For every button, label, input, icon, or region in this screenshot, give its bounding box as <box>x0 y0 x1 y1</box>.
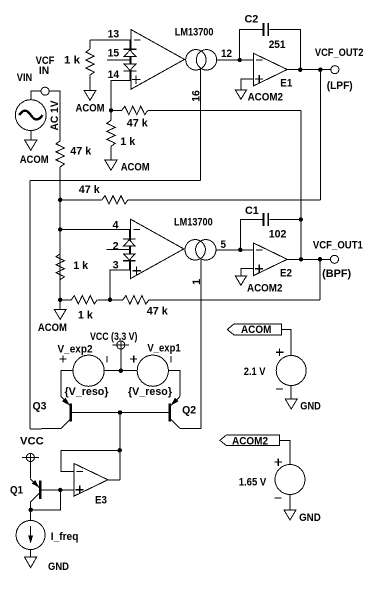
linearizing diode D4 <box>123 246 136 270</box>
wire E3 + input to Q1 base <box>40 489 74 491</box>
node VCF_OUT1 junction <box>318 257 322 261</box>
node Q1 base junction <box>58 488 62 492</box>
svg-text:E2: E2 <box>280 268 292 280</box>
svg-text:VCF_OUT2: VCF_OUT2 <box>315 47 364 59</box>
wire C1 feedback right leg <box>269 220 301 260</box>
node pin4 junction <box>58 227 62 231</box>
wire BPF feedback down to C1 node <box>300 110 302 219</box>
linearizing diode D3 <box>123 230 136 247</box>
ota U1b output mirror circles <box>185 240 216 260</box>
svg-text:VCC: VCC <box>20 435 44 447</box>
port VCF_OUT1 (BPF) <box>313 240 363 281</box>
voltage source V3 1.65 V <box>239 458 305 498</box>
ground GND under V3 <box>284 510 321 524</box>
svg-text:V_exp2: V_exp2 <box>58 344 93 356</box>
svg-text:15: 15 <box>108 48 120 60</box>
label LM13700 (U1b) <box>174 217 213 229</box>
wire E2 output <box>287 258 330 260</box>
op-amp U1a LM13700 triangle <box>131 30 185 90</box>
svg-text:4: 4 <box>113 220 120 232</box>
wire Q2 collector to pin1 <box>180 428 201 430</box>
wire pin 3 to node B <box>110 270 130 300</box>
svg-text:VIN: VIN <box>17 72 32 84</box>
wire bias rail left vertical <box>29 180 31 429</box>
wire ACOM flag to source <box>281 330 291 356</box>
resistor R7 1 k (node B) <box>60 296 110 322</box>
wire I_freq to GND <box>30 550 32 558</box>
svg-text:1: 1 <box>191 279 203 285</box>
pin label 14 <box>108 69 120 81</box>
node A junction (pin 14) <box>109 108 113 112</box>
svg-text:C1: C1 <box>245 205 259 217</box>
resistor R1 1 k (pin 13 to ACOM) <box>64 40 94 91</box>
transistor Q2 <box>170 397 196 429</box>
pin label 3 <box>113 260 119 272</box>
resistor R2 47 k (VIN series) <box>56 141 92 167</box>
wire source to GND 2 <box>289 495 291 511</box>
wire pin 14 to node A <box>111 80 131 110</box>
wire C2 feedback right leg <box>269 30 300 70</box>
node pin3 rail junction <box>58 298 62 302</box>
wire V_exp1 to Q2 emitter <box>168 371 180 397</box>
svg-text:1 k: 1 k <box>78 309 94 321</box>
svg-text:ACOM: ACOM <box>38 322 67 334</box>
resistor R3 47 k (BPF feedback) <box>111 106 301 129</box>
op-amp E3 <box>74 464 108 507</box>
linearizing diode D1 <box>124 40 137 57</box>
node VIN label <box>17 72 32 84</box>
wire bias rail horizontal <box>30 179 200 181</box>
svg-text:VCF_OUT1: VCF_OUT1 <box>313 240 363 252</box>
voltage source V_exp2 {V_reso} <box>58 344 110 399</box>
svg-text:LM13700: LM13700 <box>175 27 214 39</box>
svg-text:Q1: Q1 <box>10 484 23 496</box>
svg-text:2.1 V: 2.1 V <box>244 366 266 378</box>
wire port to AC source <box>31 91 41 100</box>
svg-text:LM13700: LM13700 <box>174 217 213 229</box>
svg-text:47 k: 47 k <box>70 146 92 158</box>
port VCF_OUT2 (LPF) <box>315 47 364 92</box>
svg-text:ACOM2: ACOM2 <box>248 92 283 104</box>
node VCF_OUT2 junction <box>318 68 322 72</box>
ground ACOM2 under E1 <box>235 90 283 103</box>
wire E1 + input to ACOM2 <box>241 79 254 90</box>
ground GND under V2 <box>285 399 321 412</box>
transistor Q1 <box>10 479 40 502</box>
resistor R6 1 k (pin4 node to ACOM) <box>56 254 89 280</box>
op-amp E2 <box>254 243 293 280</box>
wire E1 output <box>287 69 331 71</box>
node E1 output junction <box>298 68 302 72</box>
node C1/BPF junction <box>299 217 303 221</box>
node pin5/E2- junction <box>238 248 242 252</box>
pin label 1 <box>191 279 203 285</box>
net flag ACOM2 <box>220 435 279 447</box>
resistor R5 47 k (LPF feedback) <box>60 184 320 204</box>
port VCF IN <box>36 55 55 95</box>
svg-text:ACOM2: ACOM2 <box>232 435 268 447</box>
AC source V1 <box>15 100 46 131</box>
resistor R8 47 k (node B to VCF_OUT1) <box>110 296 320 318</box>
svg-text:GND: GND <box>300 400 321 412</box>
svg-text:13: 13 <box>108 28 120 40</box>
wire ACOM2 flag to source <box>279 440 290 464</box>
svg-text:1 k: 1 k <box>120 136 136 148</box>
svg-text:12: 12 <box>221 48 232 60</box>
pin 15 stub <box>107 48 130 60</box>
ground ACOM under AC source <box>20 140 49 166</box>
node B junction <box>108 298 112 302</box>
net flag ACOM <box>227 324 281 336</box>
op-amp E1 <box>254 53 293 89</box>
wire base rail to E3 output <box>119 413 121 480</box>
svg-text:ACOM: ACOM <box>121 162 150 174</box>
wire V_exp2 to Q3 emitter <box>61 371 73 397</box>
wire Q3 collector to bias rail <box>30 428 61 430</box>
pin 16 wire (bias, to Q3 collector rail) <box>199 69 201 180</box>
pin 2 stub <box>106 240 129 252</box>
svg-text:(BPF): (BPF) <box>322 268 351 280</box>
linearizing diode D2 <box>124 56 137 80</box>
svg-text:ACOM: ACOM <box>76 102 105 114</box>
wire pin 5 output <box>216 239 254 251</box>
ground ACOM2 under E2 <box>235 276 282 294</box>
ground ACOM under rail <box>38 300 67 334</box>
svg-text:47 k: 47 k <box>147 306 169 318</box>
label LM13700 (U1a) <box>175 27 214 39</box>
wire C1 feedback left leg <box>240 220 262 250</box>
power VCC symbol (Q1) <box>20 435 44 461</box>
svg-text:E3: E3 <box>95 495 107 507</box>
voltage source V_exp1 {V_reso} <box>128 343 181 399</box>
resistor R4 1 k (node A to ACOM) <box>107 110 136 160</box>
wire E3 feedback loop <box>61 450 120 471</box>
capacitor C2 <box>245 14 286 52</box>
ground ACOM under R1 <box>76 90 105 114</box>
svg-text:GND: GND <box>299 512 321 524</box>
node pin4 summing junction upper <box>58 198 62 202</box>
svg-text:102: 102 <box>269 229 287 241</box>
svg-text:1.65 V: 1.65 V <box>239 477 267 489</box>
svg-text:GND: GND <box>48 561 69 573</box>
svg-text:E1: E1 <box>280 77 292 89</box>
svg-text:Q3: Q3 <box>33 401 47 413</box>
wire rail down to pin4 node <box>59 167 61 230</box>
wire C2 feedback left leg <box>240 30 263 61</box>
svg-text:ACOM2: ACOM2 <box>247 282 282 294</box>
svg-text:ACOM: ACOM <box>241 324 271 336</box>
svg-text:5: 5 <box>221 239 227 251</box>
svg-text:C2: C2 <box>245 14 259 26</box>
svg-text:(LPF): (LPF) <box>327 80 353 92</box>
node base rail junction <box>118 410 122 414</box>
wire pin 4 input <box>60 220 130 232</box>
wire AC source to ACOM <box>30 131 32 141</box>
wire pin 12 output <box>217 48 254 60</box>
svg-text:VCC (3.3 V): VCC (3.3 V) <box>90 331 138 343</box>
wire rail pin4node to node B row <box>59 230 61 300</box>
node pin12/E1- junction <box>237 58 241 62</box>
node Q1 collector junction <box>29 508 33 512</box>
wire E2 + input to ACOM2 <box>241 269 254 277</box>
ground ACOM under R4 <box>105 160 150 173</box>
svg-text:{V_reso}: {V_reso} <box>128 386 173 398</box>
voltage source V2 2.1 V <box>244 348 306 389</box>
power VCC (3.3 V) symbol <box>90 331 138 371</box>
svg-text:2: 2 <box>113 240 119 252</box>
svg-text:251: 251 <box>269 39 286 51</box>
capacitor C1 <box>245 205 286 241</box>
wire V_exp2 to V_exp1 <box>104 370 137 372</box>
wire Q3/Q2 base rail <box>71 412 170 414</box>
svg-text:IN: IN <box>39 65 49 77</box>
svg-text:47 k: 47 k <box>127 118 149 130</box>
wire Q1 base-collector tie <box>31 490 61 510</box>
current source I_freq <box>16 521 78 550</box>
node E2 output junction <box>299 257 303 261</box>
svg-text:14: 14 <box>108 69 120 81</box>
wire VCC to Q1 emitter <box>29 462 31 479</box>
wire Q1 collector down <box>30 502 32 521</box>
svg-text:1 k: 1 k <box>64 55 81 67</box>
op-amp U1b LM13700 triangle <box>130 219 184 279</box>
svg-text:V_exp1: V_exp1 <box>147 343 180 355</box>
node E3 output junction <box>118 448 122 452</box>
wire source to GND <box>290 386 292 400</box>
ground GND under I_freq <box>25 557 69 573</box>
wire E3 output to loop <box>108 479 120 481</box>
svg-text:47 k: 47 k <box>79 184 101 196</box>
svg-text:16: 16 <box>190 90 202 102</box>
pin label 13 <box>108 28 120 40</box>
transistor Q3 <box>33 397 71 429</box>
wire VCF_OUT1 to BPF feedback rail <box>319 259 321 300</box>
svg-text:Q2: Q2 <box>182 405 196 417</box>
svg-text:ACOM: ACOM <box>20 154 49 166</box>
svg-text:{V_reso}: {V_reso} <box>65 386 110 398</box>
wire port to 47k rail <box>49 91 60 141</box>
pin label 16 <box>190 90 202 102</box>
wire VCF_OUT2 to LPF feedback rail <box>319 70 321 200</box>
node V_exp supply junction <box>119 369 123 373</box>
svg-text:1 k: 1 k <box>73 260 89 272</box>
pin 1 wire (bias, to Q2 collector) <box>200 259 202 429</box>
svg-text:I_freq: I_freq <box>51 531 79 543</box>
ota U1a output mirror circles <box>186 50 217 70</box>
label AC 1V <box>49 100 61 131</box>
svg-text:AC 1V: AC 1V <box>49 100 61 131</box>
wire pin 13 input <box>90 39 131 41</box>
